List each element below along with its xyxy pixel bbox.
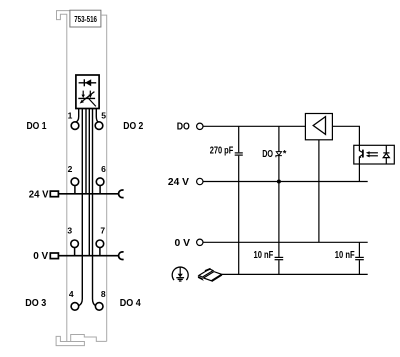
- svg-text:24 V: 24 V: [29, 188, 49, 200]
- capacitor C2 lower wire: [278, 260, 280, 274]
- module outline right side: [102, 15, 107, 341]
- svg-text:0 V: 0 V: [175, 237, 191, 249]
- terminal circle 3: [71, 240, 79, 248]
- wire pin5 from LED box to terminal 5: [96, 109, 98, 123]
- stub terminal3 to 0V rail: [74, 248, 76, 256]
- label box 753-516: [70, 10, 101, 27]
- module foot step: [71, 335, 107, 342]
- DIN rail contact icon: [198, 269, 222, 282]
- svg-text:270 pF: 270 pF: [210, 146, 234, 157]
- wire 0V line: [203, 241, 368, 243]
- light arrow lower: [366, 154, 378, 157]
- wire 24V line: [203, 181, 368, 183]
- schematic terminal circle DO: [197, 123, 203, 129]
- capacitor C1 lower wire: [238, 156, 240, 275]
- zener branch middle wire: [278, 156, 280, 257]
- terminal circle 1: [71, 122, 79, 130]
- terminal circle 8: [95, 303, 103, 311]
- module outline top-left hook: [57, 11, 71, 342]
- capacitor C1 270pF branch upper wire: [238, 126, 240, 152]
- svg-text:DO 1: DO 1: [27, 120, 47, 132]
- wire ground bus: [222, 273, 368, 275]
- capacitor C1 plates: [235, 153, 243, 155]
- stub terminal2 to 24V rail: [74, 185, 76, 193]
- svg-text:0 V: 0 V: [33, 250, 48, 262]
- svg-text:3: 3: [67, 226, 72, 236]
- functional earth symbol: [172, 267, 188, 281]
- 0V rail wire: [59, 255, 119, 257]
- wire bundle line to 0V: [88, 109, 90, 256]
- svg-text:DO 2: DO 2: [123, 120, 143, 132]
- svg-text:8: 8: [101, 289, 106, 299]
- terminal circle 6: [96, 178, 104, 186]
- 24V rail continuation arc: [119, 190, 124, 198]
- svg-text:*: *: [283, 149, 287, 159]
- status LED box U1: [76, 75, 99, 109]
- driver box U2: [305, 114, 332, 140]
- stub terminal7 to 0V rail: [99, 248, 101, 256]
- wire driver to optocoupler: [332, 126, 359, 145]
- svg-text:DO 3: DO 3: [25, 297, 46, 309]
- svg-text:4: 4: [69, 289, 74, 299]
- svg-text:2: 2: [68, 164, 73, 174]
- wire bundle line to terminal 4: [79, 109, 83, 306]
- zener branch upper wire: [278, 126, 280, 151]
- module foot boot: [56, 336, 84, 345]
- zener diode D2: [276, 152, 282, 158]
- svg-text:24 V: 24 V: [168, 176, 189, 188]
- 0V pad: [50, 253, 58, 259]
- capacitor C3 lower wire: [358, 260, 360, 274]
- svg-text:10 nF: 10 nF: [254, 250, 274, 261]
- terminal circle 2: [71, 178, 79, 186]
- optocoupler box U3: [354, 145, 395, 164]
- schematic terminal circle 0V: [197, 239, 203, 245]
- schematic terminal circle 24V: [197, 178, 203, 184]
- svg-text:1: 1: [68, 110, 73, 120]
- wire bundle line to 24V: [85, 109, 87, 194]
- 0V rail continuation arc: [119, 252, 124, 260]
- svg-text:6: 6: [101, 164, 106, 174]
- wire bundle line to terminal 8: [93, 109, 96, 306]
- terminal circle 4: [71, 303, 79, 311]
- svg-text:10 nF: 10 nF: [335, 250, 355, 261]
- svg-text:7: 7: [100, 226, 105, 236]
- svg-text:DO: DO: [262, 148, 273, 160]
- capacitor C3 plates: [355, 257, 364, 259]
- terminal circle 5: [95, 122, 103, 130]
- phototransistor Q1: [359, 145, 363, 164]
- svg-text:753-516: 753-516: [74, 15, 97, 24]
- LED pair indicator inside LED box: [78, 91, 96, 107]
- wire DO line: [203, 125, 305, 127]
- wire pin1 from LED box to terminal 1: [76, 109, 79, 123]
- junction dot at 24V: [277, 180, 281, 184]
- stub terminal6 to 24V rail: [99, 185, 101, 193]
- wire optocoupler emitter to 24V: [358, 164, 360, 182]
- 24V pad: [50, 191, 58, 197]
- svg-text:DO: DO: [177, 121, 190, 133]
- driver triangle: [313, 117, 325, 135]
- svg-text:5: 5: [101, 110, 106, 120]
- diode D1 inside LED box: [79, 79, 97, 86]
- svg-text:DO 4: DO 4: [120, 297, 141, 309]
- LED D3 in optocoupler: [383, 145, 389, 164]
- wire driver output down: [318, 140, 320, 243]
- light arrow upper: [366, 151, 378, 154]
- terminal circle 7: [96, 240, 104, 248]
- 24V rail wire: [59, 193, 119, 195]
- capacitor C3 10nF right upper wire: [358, 242, 360, 257]
- capacitor C2 10nF plates: [275, 257, 284, 259]
